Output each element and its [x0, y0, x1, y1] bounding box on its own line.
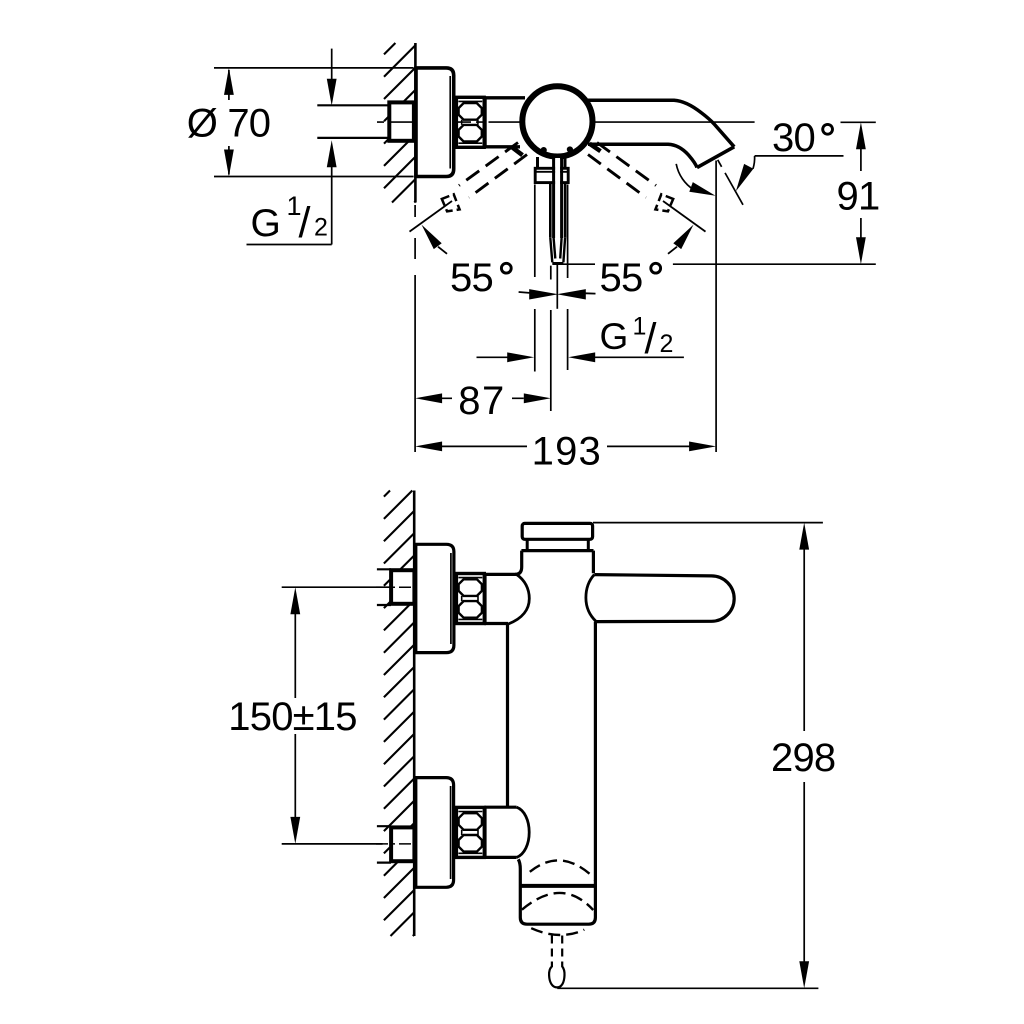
- spout outer curve: [588, 100, 734, 147]
- upper wall union square: [391, 570, 414, 604]
- upper body edges: [515, 551, 593, 575]
- upper ball joint bulge: [508, 574, 530, 624]
- extension line lever front edge (87): [550, 266, 552, 411]
- lower wall union square: [391, 827, 414, 861]
- wall union square (top view): [389, 102, 414, 140]
- outlet cup outline: [518, 859, 595, 924]
- upper escutcheon (front view): [416, 544, 454, 652]
- body top cap (front view): [522, 523, 592, 539]
- screw dot left: [541, 147, 547, 153]
- lower body edges: [508, 622, 596, 881]
- 55° boundary line right: [663, 201, 706, 232]
- upper escutcheon inner contour: [450, 553, 452, 644]
- connector cone (top view): [484, 98, 525, 147]
- supply pipe stub (top view): [317, 105, 389, 138]
- shoulder line: [521, 549, 593, 552]
- 30° arc left with arrow: [676, 164, 694, 190]
- dimension 150±15 extension lines: [282, 587, 393, 844]
- wall face extension line (top view dims): [414, 205, 416, 452]
- union nut (top view): [456, 97, 484, 147]
- dimension 87 line: [442, 397, 524, 399]
- ghost lever left collar: [442, 194, 460, 211]
- lever arm (front view): [594, 575, 734, 622]
- 55° arc arrow right: [673, 225, 693, 250]
- escutcheon (top view): [416, 68, 454, 177]
- escutcheon inner contour (top view): [449, 76, 451, 169]
- svg-text:30: 30: [772, 116, 815, 160]
- neck ring: [527, 539, 588, 550]
- hidden dome arc 1: [530, 860, 593, 876]
- lower union nut (front view): [456, 807, 484, 857]
- svg-text:G: G: [600, 316, 629, 357]
- lower supply stub (front view): [377, 826, 391, 862]
- lever (top view) collar: [535, 168, 568, 182]
- 30° arc right with arrow: [753, 156, 755, 169]
- svg-text:55: 55: [600, 256, 643, 300]
- upper connector cylinder: [484, 574, 516, 623]
- centerline (top view axis): [377, 121, 755, 123]
- svg-text:Ø 70: Ø 70: [187, 102, 271, 146]
- lever (top view) blade edges: [555, 158, 560, 238]
- dimension 298 line: [803, 549, 805, 962]
- G 1/2 upper leader with arrow (points at pipe top): [331, 49, 333, 80]
- svg-text:298: 298: [771, 736, 835, 780]
- 55° vertex arrows (bowtie): [529, 289, 558, 299]
- dimension 150±15 line: [294, 613, 296, 817]
- outlet bottom extension line (298): [557, 987, 818, 989]
- extension lines below lever (G1/2 thread edges): [534, 185, 536, 372]
- 30° leader line: [755, 155, 844, 157]
- ghost lever left root wedge: [512, 147, 523, 155]
- body waist at lever boss: [586, 575, 596, 622]
- hidden dome arc 3: [531, 928, 584, 935]
- lower connector cylinder: [484, 807, 516, 857]
- svg-text:55: 55: [450, 256, 493, 300]
- svg-text:2: 2: [314, 214, 328, 242]
- lower escutcheon (front view): [416, 778, 454, 888]
- 91 top extension segment: [841, 121, 876, 123]
- 55° boundary line left: [410, 201, 453, 232]
- dimension 193 line: [442, 445, 690, 447]
- label G 1/2 leader underline: [247, 244, 332, 246]
- lever (top view) tip taper: [550, 238, 565, 262]
- lower union centerline: [376, 843, 413, 845]
- screw dot right: [567, 146, 573, 152]
- svg-text:91: 91: [837, 175, 880, 219]
- lever (top view) tip end: [552, 262, 563, 265]
- ghost lever right (dashed, rotated 55°): [588, 143, 656, 198]
- wall (front view) face line: [413, 491, 416, 937]
- lever (top view) neck: [538, 157, 566, 168]
- ghost lever right collar: [655, 194, 673, 211]
- svg-text:/: /: [645, 315, 657, 363]
- 91 bottom extension line: [553, 263, 876, 265]
- svg-text:150±15: 150±15: [228, 695, 356, 739]
- spout outlet cut edge: [697, 147, 734, 168]
- aerator joint line: [520, 884, 596, 888]
- svg-text:193: 193: [532, 429, 602, 473]
- spout inner curve: [588, 144, 697, 167]
- svg-text:/: /: [299, 199, 311, 247]
- lower escutcheon inner contour: [450, 786, 452, 879]
- wall (top view) hatching: [384, 43, 415, 203]
- lever axis line below: [556, 265, 558, 309]
- hidden dome arc 2: [522, 893, 593, 910]
- upper union centerline: [376, 586, 413, 588]
- svg-text:2: 2: [660, 330, 674, 358]
- svg-text:87: 87: [458, 379, 506, 423]
- cartridge ball body (top view): [522, 86, 592, 156]
- upper supply stub (front view): [377, 569, 391, 605]
- spout tip extension line (for 193): [715, 161, 717, 453]
- wall (front view) hatching: [384, 491, 414, 937]
- cap top extension line (298): [593, 522, 823, 524]
- dimension Ø70 line: [228, 70, 230, 175]
- ghost lever right root wedge: [590, 144, 601, 152]
- lower check valve dome: [517, 807, 530, 857]
- 55° arc arrow left: [422, 225, 442, 250]
- spout flow axis line (30°): [718, 160, 743, 205]
- dimension 91 line: [860, 149, 862, 238]
- G 1/2 outlet dim lines with arrows: [477, 356, 509, 358]
- lever (top view) shaft: [550, 183, 565, 238]
- dimension Ø70 extension lines: [214, 68, 414, 177]
- outlet stem (hidden): [552, 936, 562, 968]
- svg-text:G: G: [251, 202, 281, 245]
- G 1/2 lower leader with arrow (points at pipe bottom): [331, 166, 333, 245]
- outlet knob: [549, 967, 564, 988]
- ghost lever left (dashed, rotated 55°): [459, 143, 527, 198]
- wall (top view) face line: [414, 43, 417, 203]
- nut/cone boundary (top view): [483, 98, 487, 148]
- upper union nut (front view): [456, 574, 484, 624]
